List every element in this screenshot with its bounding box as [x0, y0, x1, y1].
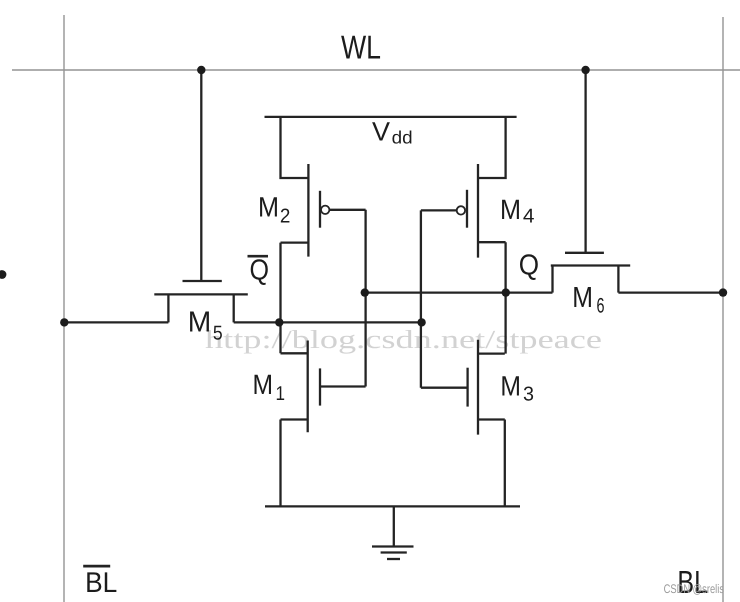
svg-text:Q: Q	[519, 250, 539, 282]
svg-text:CSDN @srelis: CSDN @srelis	[664, 582, 724, 596]
transistor M1 (NMOS, left pull-down)	[281, 341, 366, 433]
gate bubble of M4	[457, 206, 465, 214]
wire cross-couple left vertical (M2/M1 gates to node Q)	[364, 210, 366, 387]
ground symbol	[372, 506, 414, 559]
label M2	[258, 192, 290, 228]
svg-text:6: 6	[597, 295, 605, 318]
wire node Qbar to M4/M3 gates (horizontal)	[279, 321, 421, 323]
label M1	[253, 369, 286, 405]
svg-text:http://blog.csdn.net/stpeace: http://blog.csdn.net/stpeace	[205, 325, 602, 354]
svg-text:Q: Q	[250, 255, 270, 287]
svg-text:M: M	[258, 192, 279, 223]
word line WL wire (gray horizontal)	[12, 69, 740, 71]
label M3	[500, 371, 534, 406]
svg-text:5: 5	[213, 322, 223, 344]
svg-text:dd: dd	[392, 127, 413, 147]
label Qbar (node Qbar)	[248, 255, 270, 287]
junction dot on BL	[719, 288, 727, 296]
transistor M3 (NMOS, right pull-down)	[421, 340, 505, 435]
wire M1 source to ground rail	[279, 420, 281, 507]
transistor M6 (NMOS access, right)	[551, 253, 630, 293]
svg-text:M: M	[572, 282, 593, 314]
wire node Q vertical (M4 drain to M3 drain)	[504, 242, 506, 353]
wire node Qbar vertical (M2 drain to M1 drain)	[279, 243, 281, 354]
wire node Q horizontal (to M2/M1 gate vertical)	[365, 291, 506, 293]
label M4	[500, 194, 535, 228]
svg-text:M: M	[500, 371, 521, 402]
transistor M2 (PMOS, left pull-up)	[281, 117, 321, 257]
svg-text:M: M	[188, 306, 212, 338]
wire cross-couple right vertical (M4/M3 gates to node Qbar)	[420, 210, 422, 387]
svg-text:2: 2	[280, 205, 291, 227]
svg-text:4: 4	[523, 206, 535, 228]
label M5	[188, 306, 223, 344]
wire BLbar to M5	[64, 321, 168, 323]
wire M4 gate to cross-couple	[421, 209, 457, 211]
junction dot on WL at M5 stem	[197, 66, 205, 74]
svg-text:3: 3	[523, 384, 534, 406]
label BLbar	[83, 566, 117, 599]
ground rail wire	[265, 505, 520, 507]
svg-text:V: V	[372, 117, 390, 147]
wire M2 gate to cross-couple	[329, 209, 365, 211]
wire WL to M6 gate	[584, 70, 586, 253]
svg-text:BL: BL	[85, 567, 117, 599]
junction dot on WL at M6 stem	[581, 66, 589, 74]
gate bubble of M2	[321, 206, 329, 214]
label Vdd	[372, 117, 413, 148]
junction dot node Qbar at M2/M1 drains	[275, 318, 283, 326]
wire WL to M5 gate	[200, 70, 202, 281]
junction dot node Q at M4/M3 drains	[502, 288, 510, 296]
svg-text:1: 1	[276, 383, 286, 405]
junction dot on BLbar	[60, 318, 68, 326]
wire node Q to M6	[506, 291, 553, 293]
bit line BLbar wire (gray vertical, left)	[63, 15, 65, 602]
transistor M4 (PMOS, right pull-up)	[467, 117, 506, 258]
wire M5 to node Qbar	[234, 321, 280, 323]
bit line BL wire (gray vertical, right)	[722, 17, 724, 602]
junction dot node Q at M2/M1 gate line	[361, 288, 369, 296]
label M6	[572, 282, 604, 318]
wire M3 source to ground rail	[504, 420, 506, 507]
svg-text:M: M	[253, 369, 274, 400]
svg-text:WL: WL	[341, 29, 381, 66]
transistor M5 (NMOS access, left)	[154, 281, 248, 322]
Vdd supply rail	[265, 116, 517, 118]
stray dot at left edge	[0, 270, 6, 279]
svg-text:M: M	[500, 194, 521, 225]
wire M6 to BL	[618, 291, 723, 293]
junction dot node Qbar at M4/M3 gate line	[417, 318, 425, 326]
